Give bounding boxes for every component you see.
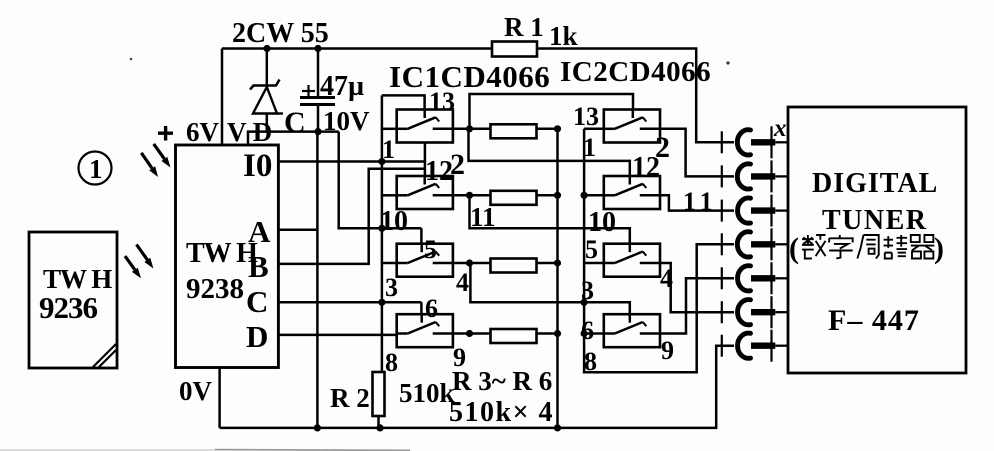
wire D output to S4 input — [278, 334, 396, 337]
wire VD branch down — [339, 132, 422, 229]
node cap-ground junction — [314, 424, 321, 431]
IC2 switch S3 — [604, 244, 660, 277]
node R2-ground junction — [376, 424, 383, 431]
IC2 switch S4 — [604, 314, 660, 347]
wire IC2 S1 input stub — [584, 128, 604, 131]
svg-text:11: 11 — [683, 187, 718, 216]
svg-text:11: 11 — [470, 202, 496, 232]
wire S3out to IC2 S4 control — [470, 263, 629, 314]
wire IC1 S2 input stub — [382, 194, 397, 197]
IC1 switch S1 — [397, 110, 453, 143]
node IC2 pin3 junction — [581, 299, 588, 306]
node R5 left junction — [466, 259, 473, 266]
digital tuner box — [788, 107, 966, 373]
connector J6 — [721, 301, 723, 323]
svg-text:B: B — [248, 249, 269, 284]
capacitor C bottom lead — [317, 105, 320, 132]
resistor R6 — [491, 329, 537, 343]
capacitor C top plate — [300, 96, 335, 99]
connector J1 — [721, 131, 723, 153]
wire R4 right lead — [537, 194, 558, 197]
node rail-zener junction — [263, 45, 270, 52]
svg-text:C: C — [246, 284, 268, 319]
svg-text:A: A — [248, 214, 271, 249]
connector J3 — [721, 200, 723, 222]
svg-text:3: 3 — [385, 273, 398, 302]
svg-text:13: 13 — [573, 102, 599, 131]
wire IC2 common input vertical to connector 4 — [584, 129, 734, 372]
wire IC1 S3 control riser — [420, 228, 423, 243]
svg-text:10: 10 — [588, 207, 616, 238]
connector J4 — [721, 233, 723, 255]
connector J2 — [721, 165, 723, 187]
wire IC1 S1 input stub — [382, 128, 397, 131]
svg-text:13: 13 — [429, 87, 455, 116]
zener diode 2CW55 cathode bar — [250, 80, 280, 90]
wire VD pin to cap — [248, 132, 339, 145]
wire 0V riser — [218, 368, 221, 428]
svg-text:9238: 9238 — [186, 273, 244, 305]
node VD-cap junction — [314, 128, 321, 135]
wire top rail right segment to connector x — [537, 49, 734, 143]
svg-text:1: 1 — [382, 135, 395, 164]
wire IC1 S2 control riser — [424, 143, 427, 177]
TWH9236 corner fold — [93, 344, 116, 367]
svg-text:x: x — [773, 115, 787, 142]
svg-text:12: 12 — [632, 152, 660, 183]
zener diode 2CW55 top lead — [266, 49, 269, 88]
IC TWH9236 box — [29, 232, 117, 368]
capacitor C bottom plate — [300, 103, 335, 106]
svg-text:R 1: R 1 — [504, 12, 544, 42]
node R3R6-ground junction — [554, 424, 561, 431]
wire S1out to IC2 S2 control — [469, 129, 630, 176]
resistor R1 — [492, 42, 537, 57]
IC1 switch S4 — [397, 314, 453, 347]
svg-text:V D: V D — [227, 117, 272, 147]
wire R4 left lead — [470, 194, 491, 197]
scan artifact line — [0, 449, 215, 451]
wire R3-R6 common vertical — [556, 129, 559, 428]
svg-text:1: 1 — [583, 133, 596, 162]
node R6 left junction — [466, 330, 473, 337]
svg-text:3: 3 — [581, 276, 594, 305]
capacitor C top lead — [317, 49, 320, 98]
IC1 switch S2 — [397, 176, 453, 209]
node R5 right junction — [554, 259, 561, 266]
IR arrow group 1 plus sign — [158, 131, 173, 134]
svg-text:8: 8 — [385, 348, 398, 377]
svg-text:6V: 6V — [186, 117, 220, 147]
svg-text:510k: 510k — [399, 378, 455, 408]
connector J7 — [721, 335, 723, 357]
IC TWH9238 box — [176, 145, 279, 368]
svg-text:DIGITAL: DIGITAL — [812, 168, 938, 199]
node R6 right junction — [554, 330, 561, 337]
svg-text:(: ( — [789, 232, 799, 265]
svg-text:12: 12 — [425, 156, 453, 187]
wire IC2 S3 output to connector 6 — [660, 263, 734, 312]
connector J5 — [721, 267, 723, 289]
svg-text:D: D — [246, 319, 268, 354]
svg-text:4: 4 — [456, 268, 469, 297]
node R4 right junction — [554, 192, 561, 199]
svg-text:47µ: 47µ — [320, 71, 364, 102]
wire R5 right lead — [537, 262, 558, 265]
wire R3 right lead — [537, 128, 558, 131]
svg-text:9236: 9236 — [39, 290, 98, 325]
svg-text:R 3~ R 6: R 3~ R 6 — [452, 366, 552, 396]
wire R5 left lead — [470, 262, 491, 265]
svg-text:IC1CD4066: IC1CD4066 — [389, 59, 550, 94]
IR arrow group 1 — [154, 144, 165, 159]
IC2 switch S1 — [604, 110, 660, 143]
wire R2 bottom lead — [377, 416, 380, 428]
node R3 right junction — [554, 125, 561, 132]
figure label circle 1 — [79, 152, 112, 185]
wire R3 left lead — [470, 128, 491, 131]
wire A output — [278, 229, 317, 232]
svg-text:): ) — [934, 232, 944, 265]
wire IC1 S1 output — [453, 128, 470, 131]
svg-text:TUNER: TUNER — [822, 205, 928, 236]
svg-text:R 2: R 2 — [330, 383, 370, 413]
zener diode 2CW55 bottom lead — [266, 114, 269, 132]
svg-text:0V: 0V — [179, 376, 213, 406]
wire B output — [278, 169, 425, 264]
zener diode 2CW55 anode triangle — [253, 87, 277, 114]
node IC2 pin8 junction — [581, 330, 588, 337]
svg-text:9: 9 — [661, 336, 674, 365]
IC1 switch S3 — [397, 244, 453, 277]
wire IC1 S1 control line — [382, 95, 425, 109]
svg-text:4: 4 — [660, 264, 673, 293]
wire 6V pin riser — [221, 49, 224, 146]
wire 6V top rail left segment — [222, 47, 492, 50]
IC2 switch S2 — [604, 176, 660, 209]
svg-text:6: 6 — [581, 316, 594, 345]
wire IC2 S2 input stub — [584, 194, 604, 197]
wire IC2 S4 input stub — [584, 332, 604, 335]
svg-text:6: 6 — [425, 294, 438, 323]
wire 0V bottom rail — [220, 346, 734, 428]
svg-text:5: 5 — [585, 235, 598, 264]
resistor R2 — [373, 372, 385, 416]
IR arrow group 2 — [137, 245, 148, 260]
resistor R4 — [491, 191, 537, 205]
wire IC1 S4 control riser — [420, 302, 423, 314]
node R4 left junction — [466, 192, 473, 199]
scan speck — [726, 61, 729, 64]
wire IC2 S4 output to connector 5 — [660, 278, 734, 333]
wire cap-negative vertical — [316, 132, 319, 428]
svg-text:1: 1 — [89, 154, 103, 184]
wire IC1 S3 output — [453, 262, 470, 265]
svg-text:1k: 1k — [549, 21, 578, 51]
svg-text:5: 5 — [424, 235, 437, 264]
wire R6 right lead — [537, 332, 558, 335]
wire IC1 common input vertical — [381, 95, 384, 372]
svg-text:IC2CD4066: IC2CD4066 — [560, 56, 711, 88]
svg-text:8: 8 — [584, 347, 597, 376]
svg-text:F– 447: F– 447 — [828, 304, 920, 337]
wire IC1 S2 output — [453, 194, 470, 197]
wire I0 line — [278, 160, 425, 163]
capacitor C plus sign — [302, 90, 315, 92]
node C-line junction pin3 — [378, 299, 385, 306]
node R3 left junction — [466, 125, 473, 132]
wire IC2 S3 input stub — [584, 262, 604, 265]
node rail-cap junction — [314, 45, 321, 52]
wire IC2 S2 output to connector 3 — [660, 195, 734, 210]
svg-text:2CW 55: 2CW 55 — [232, 18, 329, 49]
svg-text:510k× 4: 510k× 4 — [449, 397, 554, 428]
node IC2 pin1 junction — [581, 192, 588, 199]
wire IC1 S3 input stub — [382, 262, 397, 265]
node pin10 junction — [378, 225, 385, 232]
node I0-common junction pin1 — [378, 158, 385, 165]
wire R6 left lead — [470, 332, 491, 335]
wire IC2 S1 output to connector 2 — [660, 129, 734, 177]
wire S2out to IC2 S3 control pin11 line — [470, 195, 630, 243]
svg-text:10: 10 — [380, 206, 408, 237]
svg-text:I0: I0 — [243, 148, 272, 184]
svg-text:C: C — [284, 106, 306, 139]
resistor R5 — [491, 259, 537, 273]
wire C output — [278, 301, 421, 304]
resistor R3 — [491, 124, 537, 138]
wire S1out to IC2 S1 control — [470, 94, 634, 129]
wire IC1 S4 output — [453, 332, 470, 335]
